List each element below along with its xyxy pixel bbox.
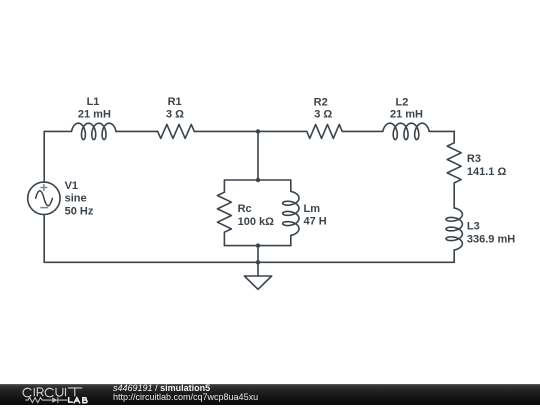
svg-text:3 Ω: 3 Ω <box>166 109 184 121</box>
svg-text:V1: V1 <box>65 180 78 192</box>
svg-text:R3: R3 <box>467 153 481 165</box>
svg-text:R2: R2 <box>314 97 328 109</box>
svg-text:L3: L3 <box>467 220 480 232</box>
svg-text:141.1 Ω: 141.1 Ω <box>467 166 507 178</box>
svg-text:R1: R1 <box>168 96 182 108</box>
svg-text:L2: L2 <box>395 97 408 109</box>
svg-text:3 Ω: 3 Ω <box>314 109 332 121</box>
svg-text:sine: sine <box>65 193 87 205</box>
svg-text:21 mH: 21 mH <box>78 109 111 121</box>
svg-text:Lm: Lm <box>304 203 321 215</box>
svg-text:47 H: 47 H <box>304 215 327 227</box>
svg-text:100 kΩ: 100 kΩ <box>238 216 275 228</box>
svg-text:336.9 mH: 336.9 mH <box>467 233 515 245</box>
svg-text:21 mH: 21 mH <box>390 109 423 121</box>
svg-text:L1: L1 <box>87 96 100 108</box>
svg-text:50 Hz: 50 Hz <box>65 206 94 218</box>
svg-text:Rc: Rc <box>238 203 252 215</box>
